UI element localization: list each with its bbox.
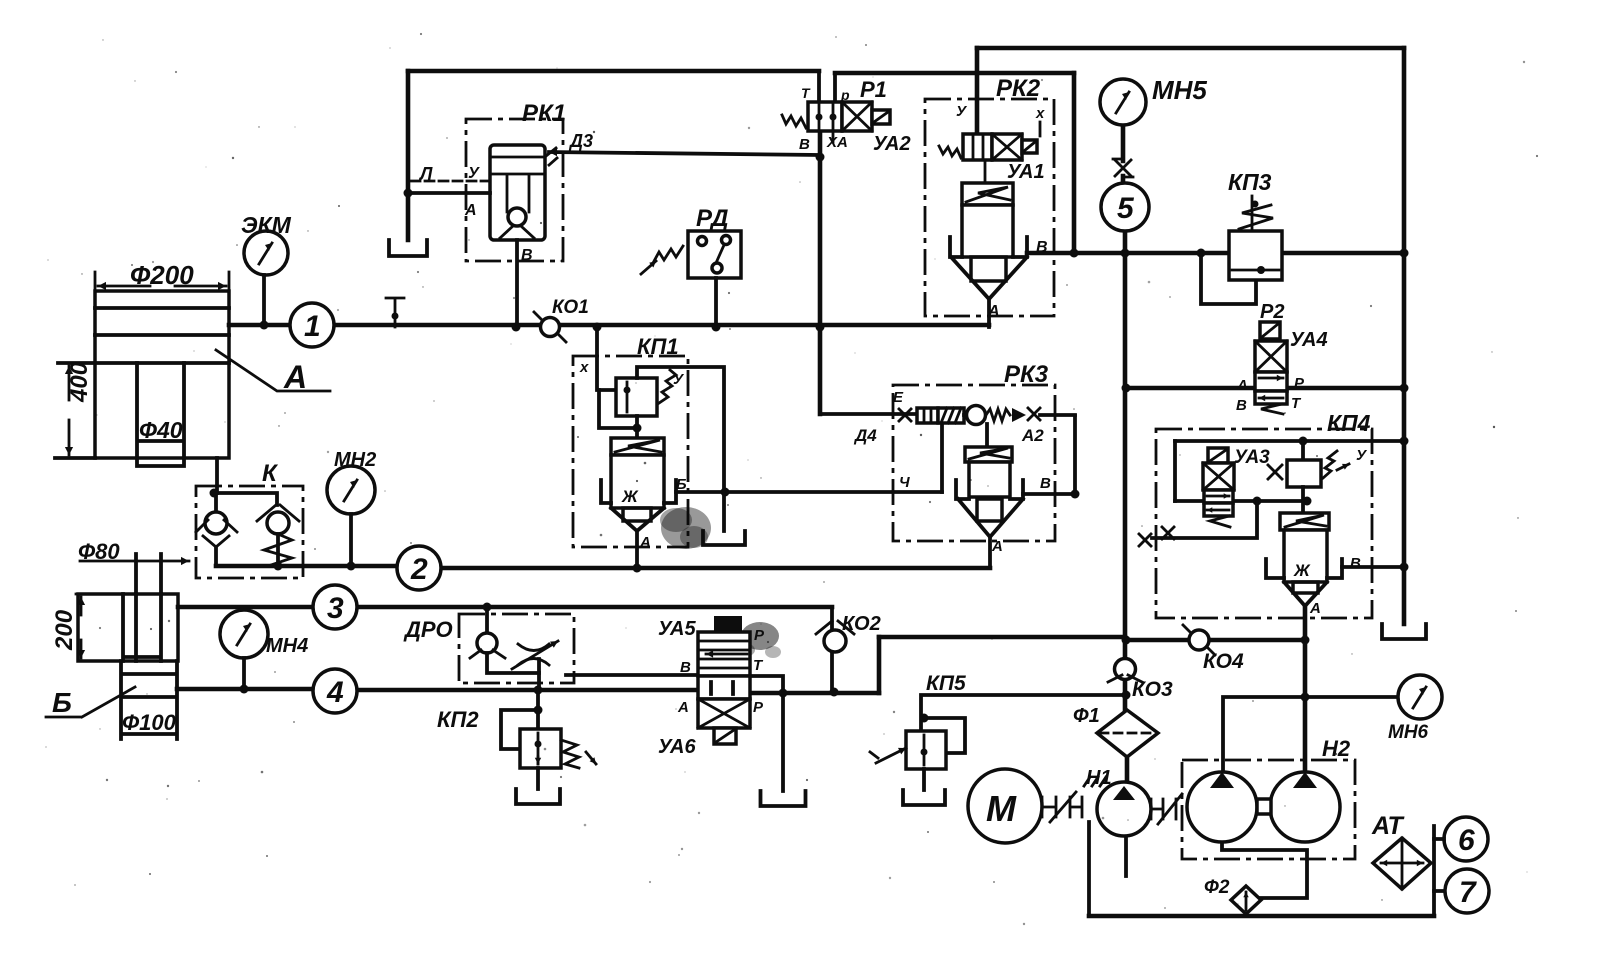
PK1 cartridge valve (490, 145, 545, 240)
KP4 main stage (1280, 513, 1329, 530)
valve P1 with solenoid UA2 (808, 102, 842, 131)
tank under UA5 valve (761, 791, 806, 806)
shutoff X under MH5 (1115, 160, 1131, 176)
wire line 3 y=607 (178, 605, 832, 610)
wire cylinder A to K block (215, 458, 219, 493)
wire PK2 A port riser (987, 299, 991, 327)
dimension F80 leader (80, 560, 189, 563)
svg-text:200: 200 (51, 609, 78, 651)
scan blob (661, 507, 711, 549)
gauge EKM (244, 231, 288, 275)
node circle 3 (313, 585, 357, 629)
UA5 solenoid (dark) (714, 616, 742, 632)
throttle check DRO frame (459, 614, 574, 683)
dimension F200 (95, 272, 229, 291)
wire B-line y=253 (1027, 251, 1404, 256)
cylinder B rod (136, 554, 161, 594)
svg-text:Р: Р (754, 627, 765, 644)
dimension 400 (68, 366, 71, 400)
cylinder B lower blocks (121, 661, 177, 739)
KP4 inner box left edge (1173, 441, 1177, 501)
node circle 7 (1445, 869, 1489, 913)
wire H1 suction stub (1124, 835, 1128, 876)
wire P1 p port drop (833, 73, 837, 102)
svg-text:КП4: КП4 (1327, 410, 1371, 436)
svg-text:М: М (986, 788, 1017, 829)
node circle 1 (290, 303, 334, 347)
PK1 U port dashed pilot (411, 180, 490, 183)
svg-text:Р: Р (753, 699, 764, 716)
KP1 pilot stage (597, 328, 616, 390)
shaft H1-H2 (1151, 799, 1163, 819)
svg-text:Р: Р (1294, 375, 1305, 392)
svg-text:В: В (521, 247, 533, 264)
wire riser 879 (877, 637, 882, 693)
svg-text:КП5: КП5 (926, 672, 966, 695)
svg-text:А: А (677, 699, 689, 716)
check valve KO3 (1115, 659, 1136, 680)
svg-text:Ф2: Ф2 (1204, 877, 1230, 898)
svg-text:КО3: КО3 (1132, 678, 1173, 701)
svg-text:ДРО: ДРО (403, 617, 453, 642)
svg-text:УА2: УА2 (873, 133, 911, 155)
KP4 x pilot wire (1152, 501, 1257, 538)
svg-text:РК2: РК2 (996, 75, 1041, 102)
svg-text:Ф1: Ф1 (1073, 705, 1100, 727)
wire MH6 line y=697 (1223, 697, 1395, 772)
svg-text:Р2: Р2 (1260, 301, 1284, 323)
pressure switch RD (688, 231, 741, 278)
svg-text:В: В (1036, 239, 1048, 256)
wire DRO to UA5 port B y=675 (566, 673, 698, 677)
svg-text:МН6: МН6 (1388, 722, 1429, 743)
svg-text:А: А (987, 303, 1000, 320)
gauge MH6 (1398, 675, 1442, 719)
wire KP5 line y=695 (921, 695, 1125, 731)
svg-text:400: 400 (66, 361, 93, 403)
svg-text:УА5: УА5 (658, 618, 696, 640)
node circle 6 (1444, 817, 1488, 861)
svg-text:В: В (1350, 555, 1361, 572)
wire left vertical 408 down to tank (406, 71, 411, 240)
svg-text:КП2: КП2 (437, 707, 479, 732)
dimension 200 (76, 593, 121, 596)
svg-text:В: В (680, 659, 691, 676)
wire main pressure line y=327 (229, 323, 989, 328)
PK3 main poppet (985, 424, 989, 447)
junction dots on main line (260, 321, 269, 330)
svg-text:Ф40: Ф40 (139, 417, 183, 443)
svg-text:КО1: КО1 (552, 297, 589, 318)
wire D4 line to PK3 (820, 412, 917, 416)
svg-text:1: 1 (304, 310, 321, 343)
svg-text:УА4: УА4 (1290, 329, 1328, 351)
wire right vertical 1404 to tank (1402, 48, 1407, 624)
svg-text:УА1: УА1 (1007, 161, 1045, 183)
svg-text:А: А (1309, 600, 1321, 617)
pump H2 left (1187, 772, 1257, 842)
DRO bottom stem (537, 673, 541, 690)
cylinder A bottom extension (55, 456, 95, 460)
UA6 crossed section (698, 699, 750, 728)
tank under 1404 (1382, 624, 1426, 639)
svg-text:А: А (464, 202, 477, 219)
svg-text:х: х (1035, 105, 1045, 122)
svg-text:ЭКМ: ЭКМ (241, 212, 292, 238)
wire H2 right pump riser (1303, 606, 1308, 772)
svg-text:5: 5 (1117, 192, 1135, 225)
wire top line L1 (408 to P1 T port) (408, 69, 819, 74)
svg-text:Ф80: Ф80 (78, 539, 120, 564)
svg-text:КО4: КО4 (1203, 650, 1244, 673)
gauge MH4 (220, 610, 268, 658)
wire P1 B vertical down (818, 131, 823, 414)
node circle 2 (397, 546, 441, 590)
wire PK3 x drop (1073, 416, 1077, 494)
gauge MH5 (1100, 79, 1146, 125)
wire vertical from L0 to PK2 port Y (975, 48, 980, 136)
svg-text:А: А (639, 534, 651, 551)
wire top outer line L0 (977, 46, 1404, 51)
KP1 pilot bypass loop (599, 390, 637, 428)
wire P1 T port drop (817, 73, 821, 102)
wire pump feed y=693 (750, 691, 879, 696)
svg-text:У: У (468, 165, 480, 182)
svg-text:А: А (1236, 377, 1248, 394)
svg-text:Ф100: Ф100 (122, 710, 177, 735)
svg-text:В: В (1040, 475, 1051, 492)
PK1 A port wire (408, 191, 490, 195)
valve PK2 frame (925, 99, 1054, 316)
node test point T on main line (386, 298, 404, 327)
svg-text:Ф200: Ф200 (130, 260, 194, 290)
svg-text:2: 2 (410, 553, 428, 586)
wire PK3 B line (1023, 492, 1075, 496)
K internal top wire (216, 493, 277, 512)
svg-text:КП1: КП1 (637, 334, 679, 359)
svg-text:МН5: МН5 (1152, 75, 1207, 105)
wire MH5 vertical (1123, 125, 1127, 783)
svg-text:р: р (840, 87, 850, 103)
valve PK1 frame (466, 119, 563, 261)
wire P2 line y=388 (1127, 386, 1404, 391)
wire line 4 y=690 (177, 689, 699, 690)
check valve KO4 (1183, 625, 1193, 635)
wire vertical 1074 down to B-line (1072, 73, 1077, 253)
wire KO2 drop (830, 609, 834, 692)
check valve KO2 (824, 630, 846, 652)
RD stem (714, 278, 718, 327)
svg-text:В: В (799, 136, 810, 153)
pump H2 right (1270, 772, 1340, 842)
svg-text:МН4: МН4 (266, 635, 308, 657)
KP1 main stage (611, 438, 664, 455)
UA3 row wire (1175, 499, 1307, 503)
wire KO4 line y=640 (1127, 638, 1305, 643)
shaft M-H1 (1042, 797, 1056, 817)
check valve KO1 (534, 312, 544, 322)
designator A pointer (216, 350, 330, 391)
svg-text:Н2: Н2 (1322, 736, 1351, 761)
svg-text:УА3: УА3 (1234, 447, 1270, 468)
svg-text:К: К (262, 460, 279, 487)
KP1 A port drop (635, 531, 639, 568)
KP3 pilot loop (1201, 253, 1256, 304)
UA5 mid section (698, 676, 750, 699)
svg-text:Р1: Р1 (860, 77, 887, 102)
svg-text:КО2: КО2 (842, 613, 881, 635)
wire PK3 U riser (940, 423, 944, 492)
svg-text:Ч: Ч (899, 474, 910, 491)
valve block K frame (196, 486, 303, 578)
tank under 408 (389, 240, 427, 256)
svg-text:Б: Б (52, 687, 72, 718)
relief valve KP1 frame (573, 356, 688, 547)
UA5 hatch section (698, 632, 750, 676)
svg-text:4: 4 (326, 676, 344, 709)
svg-text:РК1: РК1 (522, 100, 566, 127)
svg-text:ХА: ХА (826, 134, 848, 151)
svg-text:Д3: Д3 (568, 131, 593, 151)
PK3 pilot row (899, 409, 911, 421)
svg-text:УА6: УА6 (658, 736, 696, 758)
svg-text:3: 3 (327, 592, 344, 625)
svg-text:А: А (991, 538, 1003, 555)
svg-text:Ж: Ж (1293, 561, 1311, 580)
valve PK3 frame (893, 385, 1055, 541)
PK2 main poppet (962, 183, 1013, 205)
cylinder A piston bottom line + 400 extension (58, 361, 229, 365)
wire AT riser x=1434 (1432, 826, 1436, 916)
svg-text:РД: РД (696, 205, 728, 232)
wire KP4 B line y=567 (1342, 565, 1404, 569)
svg-text:МН2: МН2 (334, 449, 376, 471)
svg-text:Т: Т (801, 85, 811, 101)
svg-text:7: 7 (1459, 876, 1477, 909)
svg-text:КП3: КП3 (1228, 169, 1272, 195)
wire drain from motor shaft (1087, 822, 1091, 916)
pump block H2 frame (1182, 760, 1355, 859)
DRO check valve (477, 633, 497, 653)
PK2 funnel to A (951, 257, 1027, 299)
svg-text:Е: Е (893, 389, 904, 406)
PK1 B port wire (515, 240, 519, 327)
svg-text:АТ: АТ (1371, 812, 1406, 840)
svg-text:В: В (1236, 397, 1247, 414)
wire D3 line (PK1 x port to P1 B line) (549, 152, 820, 155)
cylinder A body (95, 291, 229, 458)
wire feed top y=637 (879, 635, 1125, 640)
node circle 4 (313, 669, 357, 713)
gauge MH2 (327, 466, 375, 514)
wire line 2 y=568 (216, 566, 990, 568)
svg-text:РК3: РК3 (1004, 361, 1049, 388)
relief valve KP4 frame (1156, 429, 1372, 618)
svg-text:Д4: Д4 (853, 426, 877, 445)
wire KP4 pilot line y=441 (1175, 439, 1404, 443)
motor M (968, 769, 1042, 843)
KP1 U port to tank (637, 367, 724, 531)
node circle 5 (1101, 183, 1149, 231)
wire top line L2 (835 to 1074) (835, 71, 1074, 76)
wire bottom return y=916 (1089, 914, 1434, 919)
svg-text:Ж: Ж (621, 487, 639, 506)
wire PK3 A riser (988, 537, 992, 568)
PK2 solenoid UA1 (963, 134, 992, 160)
UA6 solenoid box (714, 728, 736, 744)
svg-text:6: 6 (1458, 824, 1475, 857)
KP4 shutoff valve (1301, 441, 1305, 460)
svg-text:А: А (283, 359, 307, 395)
svg-text:А2: А2 (1021, 426, 1044, 445)
wire pump bottoms to F2 (1222, 842, 1307, 898)
check valve K right (spring) (267, 512, 289, 534)
cylinder A rod (137, 363, 184, 466)
svg-text:Б: Б (676, 476, 687, 493)
wire UA5 tank drop (750, 676, 783, 791)
check valve K left (205, 512, 227, 534)
DRO throttle (518, 644, 549, 665)
cylinder B body (78, 594, 178, 661)
wire KP1 B / PK3 U line y=492 (676, 490, 942, 494)
svg-text:х: х (579, 359, 589, 376)
